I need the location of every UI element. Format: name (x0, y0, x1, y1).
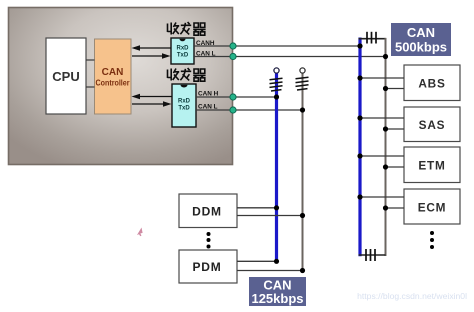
CAN H wire U3 to blue 125 bus (196, 96, 277, 98)
wire TxD controller to U2 (arrow right) (132, 53, 171, 59)
CAN 125kbps label (249, 277, 306, 306)
top bus connector wire (359, 38, 386, 40)
svg-text:125kbps: 125kbps (251, 291, 303, 306)
svg-text:CAN: CAN (102, 67, 124, 78)
svg-text:RxD: RxD (178, 99, 191, 105)
CAN-L 125kbps bus (gray) (302, 73, 304, 271)
svg-text:Controller: Controller (96, 79, 131, 88)
transceiver U2 (500kbps branch) (171, 38, 194, 64)
junction dot CANL bus top (383, 54, 388, 59)
ETM node (404, 147, 460, 183)
ECU module enclosure (9, 8, 233, 165)
CANH wire U2 to blue 500 bus (194, 45, 360, 47)
svg-text:TxD: TxD (177, 53, 189, 59)
junction dot SAS CAN H (357, 115, 362, 120)
wire DDM CAN H (237, 207, 277, 209)
junction dot CANH bus top (357, 43, 362, 48)
connector upper CANH (230, 43, 236, 49)
junction dot DDM CAN L (300, 213, 305, 218)
ellipsis below ECM (430, 231, 434, 249)
junction dot ECM CAN L (383, 205, 388, 210)
transceiver label 收发器 (upper, drawn glyphs) (168, 22, 206, 35)
wire ECM CAN H (360, 196, 404, 198)
junction dot PDM CAN L (300, 268, 305, 273)
wire ETM CAN H (360, 155, 404, 157)
svg-text:RxD: RxD (176, 46, 189, 52)
CAN-H 500kbps bus (blue) (358, 38, 361, 257)
svg-text:CAN: CAN (407, 25, 435, 40)
svg-text:ABS: ABS (418, 77, 445, 91)
SAS node (404, 107, 460, 142)
junction dot ABS CAN H (357, 75, 362, 80)
wire RxD U3 to controller (arrow left) (132, 94, 173, 100)
PDM node (179, 250, 237, 283)
svg-text:500kbps: 500kbps (395, 40, 447, 55)
wire SAS CAN L (386, 128, 405, 130)
CAN L wire U2 to gray 500 bus (194, 56, 386, 58)
junction dot CAN H U3 (274, 94, 279, 99)
stub terminal circle gray 125 bus (300, 68, 305, 73)
junction dot ECM CAN H (357, 194, 362, 199)
junction dot ETM CAN L (383, 164, 388, 169)
junction dot ETM CAN H (357, 153, 362, 158)
junction dot SAS CAN L (383, 126, 388, 131)
wire CPU to controller (upper) (86, 59, 95, 61)
red cursor mark (137, 228, 143, 237)
transceiver U3 (125kbps branch) (172, 84, 196, 127)
stub terminal circle blue 125 bus (274, 68, 279, 73)
bottom bus connector wire (359, 254, 386, 256)
svg-text:PDM: PDM (192, 260, 221, 274)
wire TxD controller to U3 (arrow right) (132, 101, 172, 107)
CAN-H 125kbps bus (blue) (275, 73, 278, 261)
svg-text:CPU: CPU (52, 69, 79, 84)
termination coil gray 125 bus (296, 77, 309, 90)
junction dot CAN L U3 (300, 107, 305, 112)
CAN 500kbps label (391, 23, 451, 56)
wire ECM CAN L (386, 207, 405, 209)
CAN-L 500kbps bus (gray) (385, 38, 387, 256)
wire PDM CAN H (237, 260, 277, 262)
termination coil blue 125 bus (270, 78, 283, 91)
ABS node (404, 65, 460, 101)
ECM node (404, 189, 460, 224)
connector lower CAN H (230, 94, 236, 100)
top termination coil 500 bus (367, 32, 376, 44)
wire RxD U2 to controller (arrow left) (132, 45, 172, 51)
junction dot DDM CAN H (274, 205, 279, 210)
wire ETM CAN L (386, 166, 405, 168)
wire SAS CAN H (360, 117, 404, 119)
junction dot PDM CAN H (274, 259, 279, 264)
wire ABS CAN L (386, 88, 405, 90)
wire ABS CAN H (360, 77, 404, 79)
transceiver label 收发器 (lower, drawn glyphs) (168, 68, 206, 81)
connector lower CAN L (230, 107, 236, 113)
CAN L wire U3 to gray 125 bus (196, 109, 303, 111)
wire CPU to controller (lower) (86, 86, 95, 88)
svg-text:SAS: SAS (419, 118, 446, 132)
ellipsis between DDM and PDM (207, 232, 211, 249)
svg-text:https://blog.csdn.net/weixin0l: https://blog.csdn.net/weixin0l (357, 291, 467, 301)
CPU (46, 38, 86, 114)
svg-text:DDM: DDM (192, 205, 222, 219)
connector upper CANL (230, 53, 236, 59)
DDM node (179, 194, 237, 228)
junction dot ABS CAN L (383, 86, 388, 91)
wire PDM CAN L (237, 270, 303, 272)
CAN controller U1 (95, 39, 132, 114)
svg-text:TxD: TxD (178, 106, 190, 112)
bottom termination coil 500 bus (366, 249, 375, 261)
svg-text:ETM: ETM (418, 159, 445, 173)
wire DDM CAN L (237, 215, 303, 217)
svg-text:ECM: ECM (418, 201, 447, 215)
